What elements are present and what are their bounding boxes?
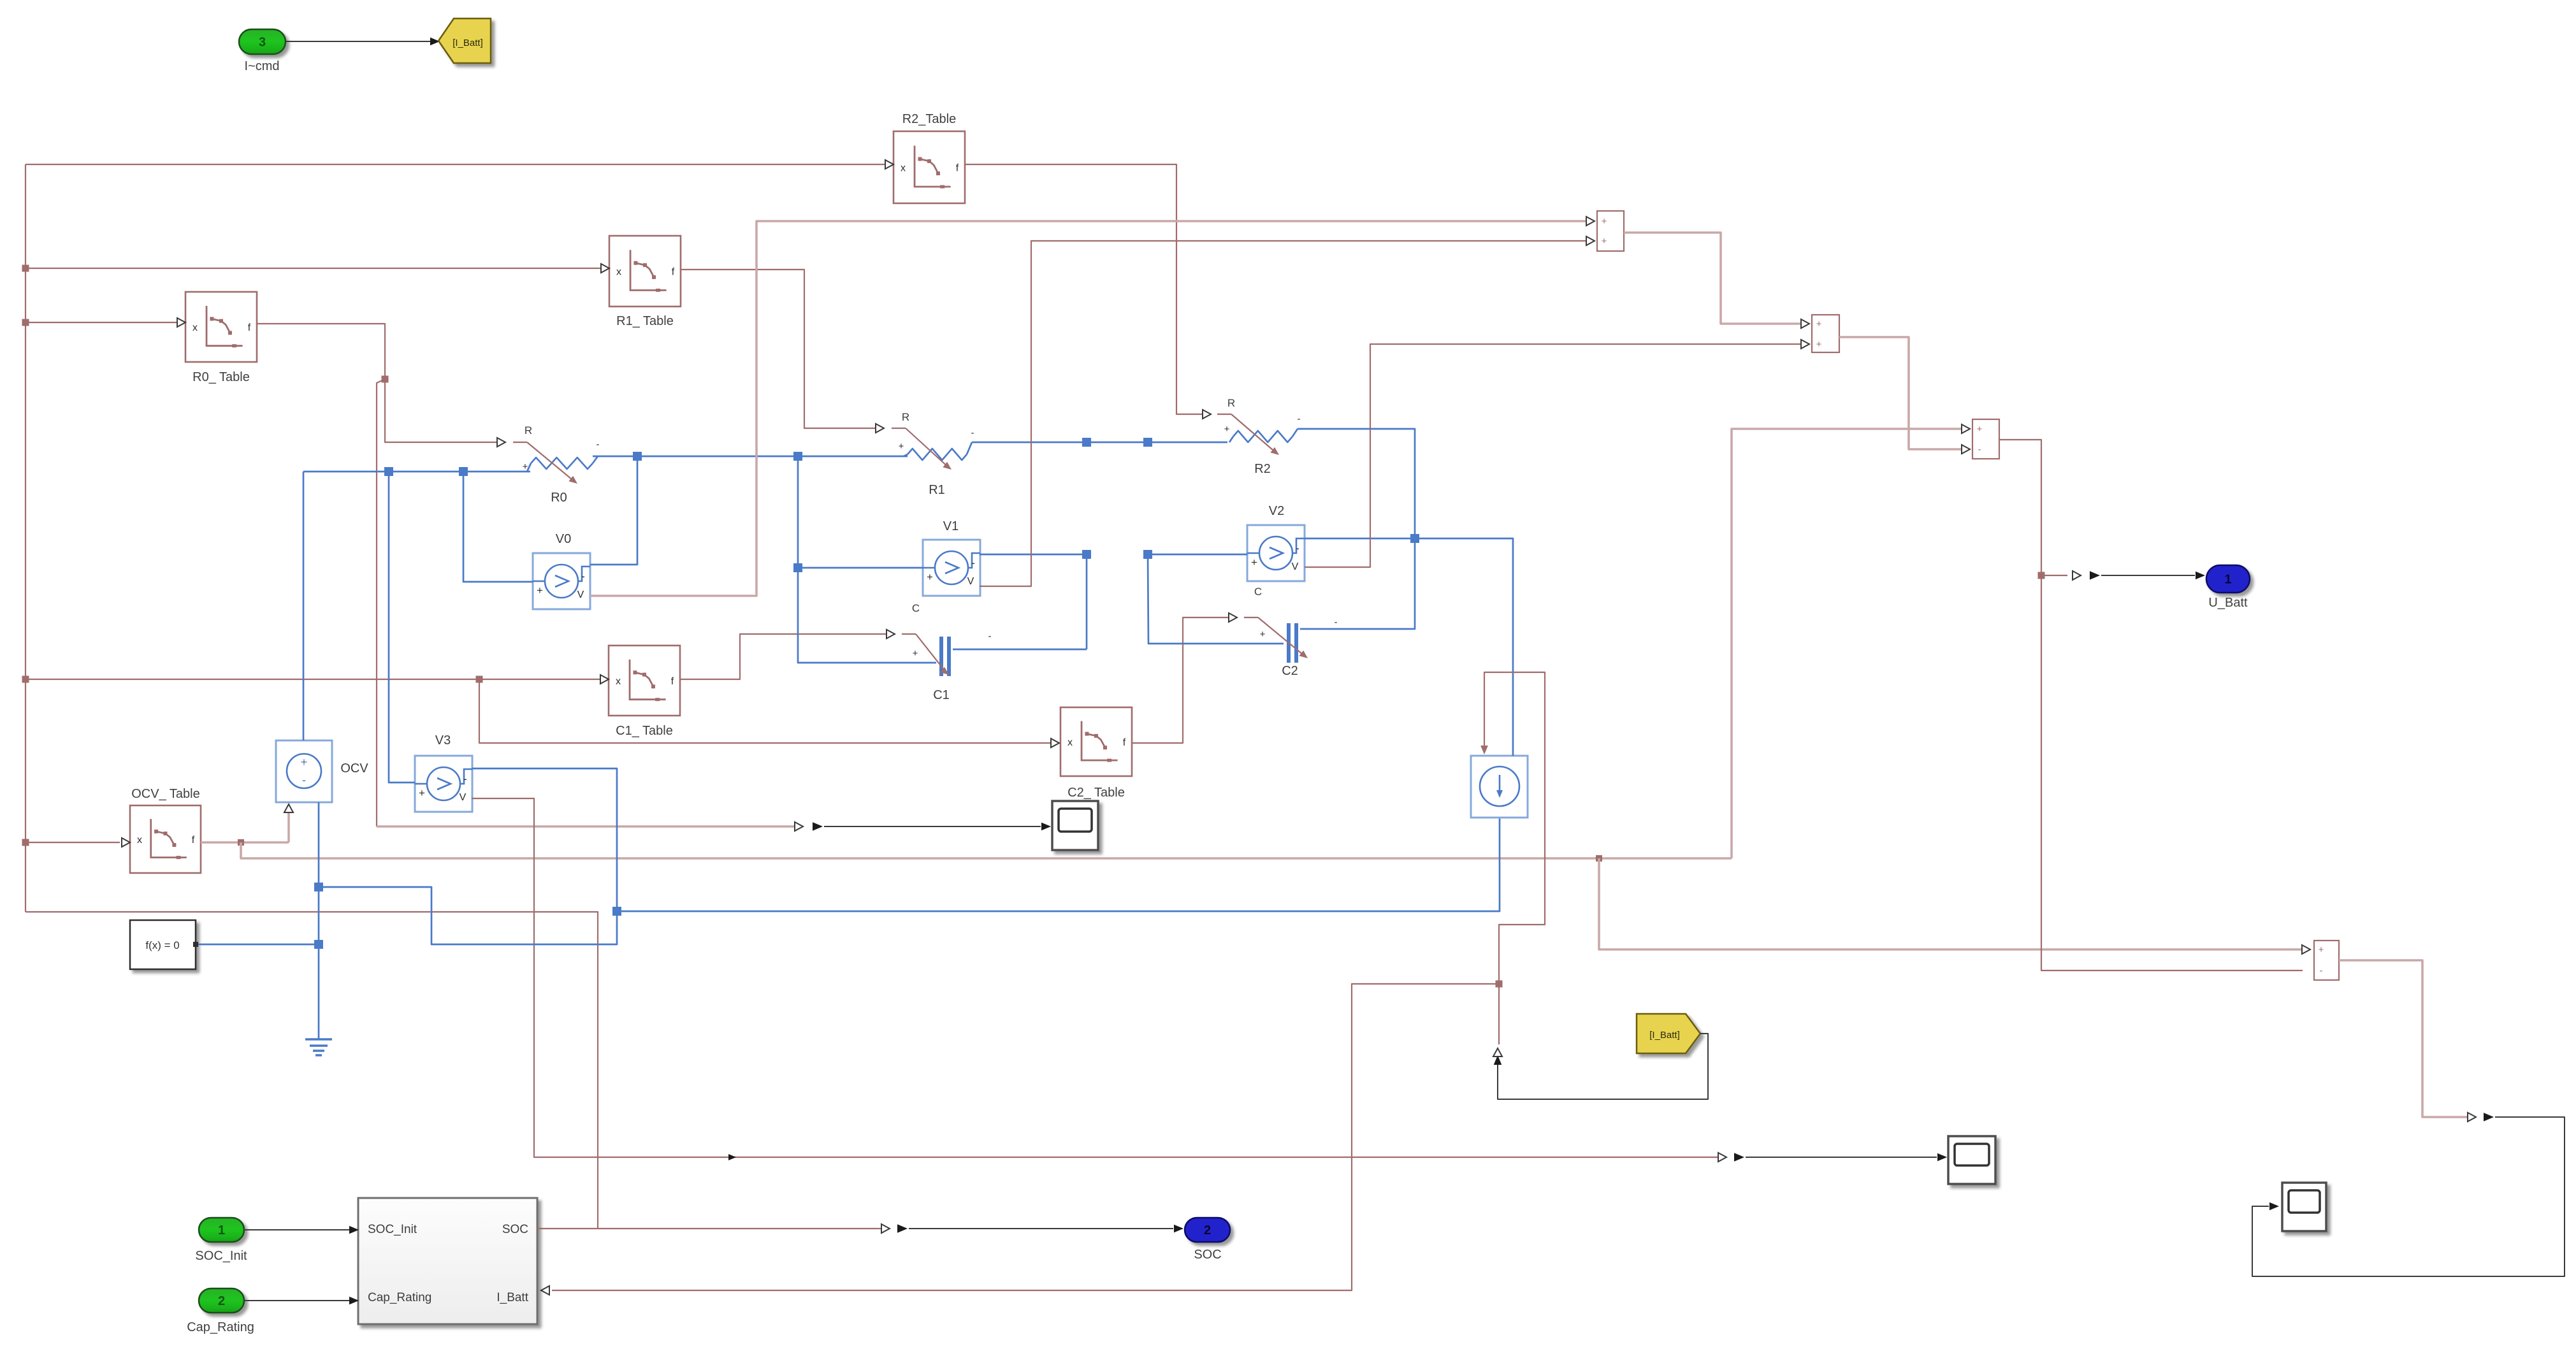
- svg-text:I~cmd: I~cmd: [244, 59, 279, 73]
- svg-text:+: +: [1977, 424, 1983, 435]
- svg-text:+: +: [1816, 339, 1822, 350]
- svg-text:x: x: [616, 267, 621, 278]
- svg-text:-: -: [597, 439, 600, 450]
- svg-text:+: +: [913, 648, 918, 659]
- svg-text:f: f: [956, 163, 959, 174]
- svg-text:V: V: [967, 576, 974, 587]
- svg-text:[I_Batt]: [I_Batt]: [1649, 1030, 1680, 1041]
- svg-text:+: +: [1260, 629, 1266, 640]
- svg-text:V3: V3: [435, 733, 451, 747]
- svg-text:R2_Table: R2_Table: [902, 112, 957, 126]
- svg-text:R0: R0: [551, 491, 567, 505]
- svg-text:+: +: [927, 571, 933, 583]
- svg-text:-: -: [463, 773, 467, 785]
- svg-text:Cap_Rating: Cap_Rating: [187, 1320, 254, 1334]
- svg-text:C2: C2: [1282, 664, 1298, 678]
- svg-text:f: f: [248, 322, 251, 333]
- svg-text:V: V: [459, 792, 467, 803]
- svg-text:R: R: [1227, 397, 1235, 409]
- svg-text:V: V: [1292, 561, 1299, 572]
- svg-text:-: -: [2320, 965, 2323, 976]
- svg-text:-: -: [971, 428, 974, 438]
- svg-text:V0: V0: [556, 532, 571, 546]
- svg-text:R0_ Table: R0_ Table: [192, 370, 250, 384]
- svg-text:-: -: [1298, 414, 1301, 424]
- svg-text:-: -: [1296, 542, 1299, 554]
- svg-text:C2_ Table: C2_ Table: [1067, 786, 1125, 800]
- svg-text:x: x: [192, 322, 198, 333]
- svg-text:SOC: SOC: [502, 1223, 528, 1236]
- svg-text:+: +: [301, 756, 308, 768]
- svg-text:2: 2: [218, 1294, 225, 1308]
- svg-text:-: -: [988, 631, 992, 642]
- svg-text:+: +: [537, 584, 543, 596]
- svg-text:f: f: [192, 835, 195, 846]
- svg-text:-: -: [971, 557, 975, 569]
- svg-text:V1: V1: [943, 519, 959, 533]
- svg-text:2: 2: [1204, 1223, 1211, 1237]
- svg-text:+: +: [899, 441, 904, 452]
- svg-text:R2: R2: [1254, 462, 1271, 476]
- svg-text:x: x: [137, 835, 142, 846]
- svg-text:+: +: [1251, 556, 1257, 568]
- svg-text:C: C: [912, 602, 920, 614]
- svg-text:+: +: [523, 461, 528, 472]
- svg-text:x: x: [616, 676, 621, 687]
- svg-text:-: -: [581, 570, 585, 582]
- svg-text:x: x: [1067, 737, 1073, 748]
- svg-text:f: f: [1123, 737, 1126, 748]
- svg-text:+: +: [419, 787, 425, 799]
- svg-text:+: +: [1602, 236, 1607, 247]
- svg-text:R: R: [525, 424, 532, 436]
- svg-text:R: R: [902, 411, 909, 423]
- svg-text:f: f: [671, 676, 674, 687]
- svg-text:SOC_Init: SOC_Init: [368, 1223, 417, 1236]
- svg-text:OCV: OCV: [340, 761, 368, 775]
- svg-text:-: -: [1978, 444, 1981, 455]
- svg-text:[I_Batt]: [I_Batt]: [452, 38, 483, 48]
- svg-text:SOC: SOC: [1194, 1248, 1221, 1262]
- svg-text:+: +: [1602, 216, 1607, 227]
- svg-text:V2: V2: [1269, 504, 1284, 518]
- svg-text:+: +: [2319, 944, 2324, 955]
- svg-text:Cap_Rating: Cap_Rating: [368, 1291, 431, 1304]
- svg-text:U_Batt: U_Batt: [2208, 596, 2248, 610]
- svg-text:C1_ Table: C1_ Table: [616, 724, 673, 738]
- svg-text:I_Batt: I_Batt: [496, 1291, 528, 1304]
- svg-text:-: -: [1335, 617, 1338, 628]
- svg-text:C: C: [1254, 586, 1262, 598]
- svg-text:f(x) = 0: f(x) = 0: [145, 939, 179, 951]
- svg-text:V: V: [577, 589, 584, 600]
- svg-text:1: 1: [2224, 573, 2231, 587]
- svg-text:x: x: [901, 163, 906, 174]
- svg-text:3: 3: [259, 36, 266, 50]
- svg-text:+: +: [1816, 319, 1822, 329]
- svg-text:f: f: [672, 267, 675, 278]
- svg-text:-: -: [302, 774, 306, 786]
- svg-text:SOC_Init: SOC_Init: [195, 1249, 247, 1263]
- svg-text:R1: R1: [929, 483, 945, 497]
- svg-text:R1_ Table: R1_ Table: [616, 314, 674, 328]
- svg-text:+: +: [1224, 424, 1230, 435]
- svg-text:1: 1: [218, 1223, 225, 1237]
- svg-text:C1: C1: [933, 688, 950, 702]
- svg-text:OCV_ Table: OCV_ Table: [131, 787, 199, 801]
